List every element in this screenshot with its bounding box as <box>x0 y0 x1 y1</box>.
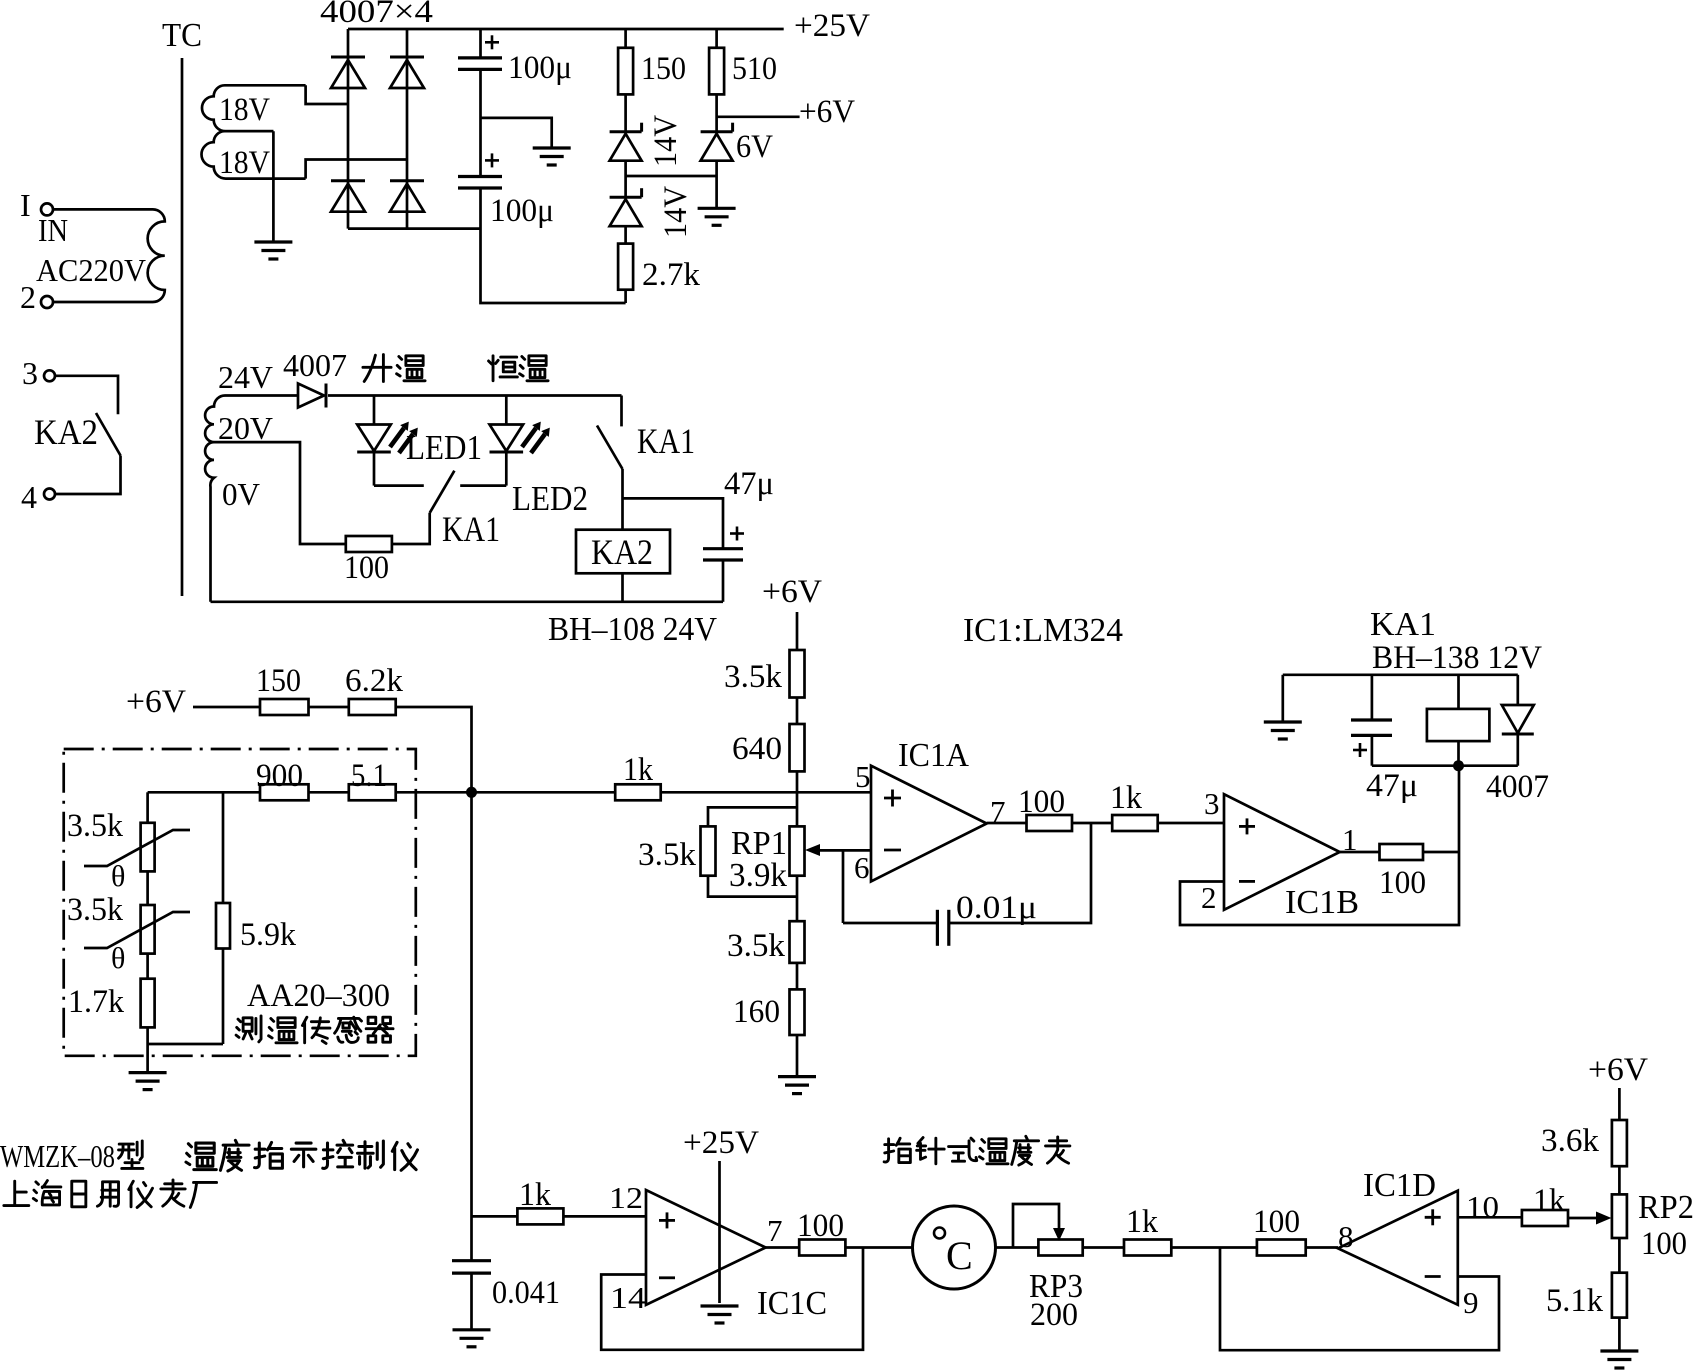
primary winding AC220V <box>54 209 165 302</box>
svg-text:12: 12 <box>609 1180 643 1215</box>
resistor 1k IC1D out <box>1124 1240 1171 1256</box>
zener diode 14V upper <box>610 130 642 133</box>
svg-text:3.5k: 3.5k <box>638 837 697 873</box>
IC1A minus sign <box>884 849 901 852</box>
wire 18V top to bridge <box>306 85 348 104</box>
svg-text:+6V: +6V <box>799 94 855 130</box>
svg-text:+6V: +6V <box>126 684 186 720</box>
svg-text:LED1: LED1 <box>406 428 482 467</box>
wire IC1B output <box>1340 851 1380 854</box>
wire RP1 to 3.5k lower <box>796 876 799 922</box>
svg-text:IC1D: IC1D <box>1363 1167 1436 1204</box>
svg-text:KA1: KA1 <box>1370 606 1436 643</box>
wire 3.5k to 160 <box>796 963 799 990</box>
svg-text:10: 10 <box>1466 1189 1499 1224</box>
terminal 3 <box>44 370 55 381</box>
svg-text:3: 3 <box>22 355 38 391</box>
svg-text:4007: 4007 <box>1486 769 1549 805</box>
svg-text:100: 100 <box>1641 1226 1687 1262</box>
wire pin14 feedback loop <box>601 1248 863 1350</box>
resistor 510 top lead <box>715 29 718 48</box>
thermistor chain top lead <box>146 792 149 823</box>
LED2 <box>490 425 524 452</box>
resistor 1.7k <box>141 979 155 1028</box>
label shang-hai-ri-yong-yi-biao-chang <box>4 1181 29 1205</box>
label sheng-wen <box>363 355 391 382</box>
wire 510 to 6V zener <box>715 94 718 131</box>
diode D4 lower-right <box>390 179 424 182</box>
resistor 160 <box>790 989 805 1035</box>
wire 1k to pin12 <box>563 1215 646 1218</box>
wire cap to output node <box>949 823 1091 923</box>
wire zener to 2.7k <box>624 226 627 243</box>
svg-text:C: C <box>946 1233 973 1278</box>
thermistor Rt2 3.5k <box>141 905 155 954</box>
bridge rectifier left column <box>347 29 350 229</box>
relay section bottom rail <box>1372 764 1518 767</box>
wire rail to ground <box>1281 675 1284 722</box>
svg-text:IC1B: IC1B <box>1285 884 1359 921</box>
47u KA1 plus sign <box>1353 749 1367 752</box>
ground divider <box>778 1075 816 1078</box>
wire diode to KA1 contact rail <box>328 394 622 397</box>
wire pin2 feedback loop <box>1180 766 1459 925</box>
svg-text:3.5k: 3.5k <box>724 659 783 695</box>
svg-text:100: 100 <box>797 1208 844 1244</box>
svg-text:AA20–300: AA20–300 <box>247 978 390 1014</box>
IC1D plus sign <box>1425 1216 1441 1219</box>
wire chain to 5.9k bottom <box>148 1043 223 1046</box>
svg-text:IC1A: IC1A <box>898 737 969 774</box>
capacitor 0.041 <box>452 1259 491 1262</box>
wire parallel bottom <box>708 876 797 897</box>
node zener junction wire <box>626 175 717 178</box>
resistor 5.9k <box>216 903 230 949</box>
IC1A plus sign <box>884 797 901 800</box>
resistor 3.5k divider lower <box>790 921 805 963</box>
svg-text:20V: 20V <box>218 410 273 446</box>
svg-text:6.2k: 6.2k <box>345 663 404 699</box>
LED2 lead top <box>505 396 508 425</box>
IC1B minus sign <box>1239 880 1255 883</box>
svg-text:3.5k: 3.5k <box>67 892 123 928</box>
svg-text:100: 100 <box>1018 784 1065 820</box>
wire +6V to 150 <box>193 706 260 709</box>
wire C1 to midpoint <box>479 69 482 176</box>
wire LED junction left segment <box>374 484 424 487</box>
wire 20V tap <box>214 442 346 544</box>
svg-text:14: 14 <box>610 1280 647 1315</box>
ground right divider <box>1600 1349 1638 1352</box>
wire RP2 to 5.1k <box>1618 1238 1621 1273</box>
resistor 150 sensor <box>260 699 309 715</box>
svg-text:9: 9 <box>1463 1285 1479 1320</box>
svg-text:TC: TC <box>162 17 202 54</box>
label wen-du-zhi-shi-kong-zhi-yi <box>186 1143 216 1170</box>
relay coil KA2 box <box>576 530 670 574</box>
capacitor C1 100u upper <box>458 56 502 59</box>
wire 100 to node <box>1423 851 1459 854</box>
wire rail to KA1 right contact <box>620 396 623 427</box>
svg-text:1k: 1k <box>1110 780 1142 816</box>
wire 1k to 100 node <box>1171 1246 1257 1249</box>
resistor 1k RP2 <box>1522 1210 1568 1226</box>
C1 plus sign <box>485 41 499 44</box>
wire terminal 3 <box>55 376 118 414</box>
terminal 2 <box>41 296 53 308</box>
LED1 <box>357 425 391 452</box>
resistor 640 <box>790 724 805 771</box>
svg-text:AC220V: AC220V <box>36 252 146 288</box>
svg-text:47μ: 47μ <box>724 466 774 502</box>
svg-text:+25V: +25V <box>683 1125 759 1161</box>
wire 3.6k to RP2 <box>1618 1166 1621 1194</box>
svg-text:WMZK–08: WMZK–08 <box>0 1138 115 1174</box>
resistor 100 IC1B out <box>1380 844 1424 860</box>
wire 5.1 to junction node <box>396 791 472 794</box>
relay contact KA2 blade <box>96 413 121 456</box>
resistor 3.6k <box>1612 1120 1627 1166</box>
resistor 100 relay <box>346 536 392 552</box>
label xing <box>119 1141 143 1169</box>
wire 100 to meter <box>845 1246 912 1249</box>
svg-text:IC1:LM324: IC1:LM324 <box>963 612 1123 649</box>
capacitor 0.01u <box>936 910 939 946</box>
secondary winding 18V upper <box>202 85 306 131</box>
wire terminal 4 <box>55 456 121 495</box>
wire 6V zener to ground <box>715 161 718 209</box>
wire parallel top <box>708 807 797 826</box>
resistor 510 <box>709 48 724 95</box>
svg-text:LED2: LED2 <box>512 479 588 518</box>
capacitor C2 100u lower <box>458 175 502 178</box>
47u plus sign <box>730 532 744 535</box>
svg-text:640: 640 <box>732 731 782 767</box>
node junction dot <box>466 787 477 798</box>
diode D1 upper-left <box>331 56 365 59</box>
resistor 100 IC1D out <box>1257 1240 1306 1256</box>
svg-text:3: 3 <box>1204 786 1220 821</box>
svg-text:510: 510 <box>732 51 777 87</box>
wire 0.041 to ground <box>470 1273 473 1330</box>
label zhi-zhen-shi-wen-du-biao <box>884 1138 910 1162</box>
potentiometer RP1 <box>790 826 805 875</box>
wire sensor row left <box>148 791 260 794</box>
wire 47u bottom <box>722 560 725 602</box>
wire LED junction right segment <box>460 484 506 487</box>
meter M temperature <box>913 1206 996 1289</box>
IC1B plus sign <box>1239 825 1255 828</box>
svg-text:IC1C: IC1C <box>757 1285 827 1322</box>
svg-text:100μ: 100μ <box>508 50 572 86</box>
ground 0.041 <box>453 1328 491 1331</box>
sensor box dash-dot <box>64 749 416 1056</box>
resistor 100 IC1C out <box>799 1240 845 1256</box>
svg-text:5.9k: 5.9k <box>240 917 296 953</box>
wire junction down to IC1C <box>470 792 473 1260</box>
svg-text:θ: θ <box>111 942 125 975</box>
svg-text:100: 100 <box>1253 1204 1300 1240</box>
wire rail to 4007 <box>1516 675 1519 705</box>
svg-text:150: 150 <box>641 51 686 87</box>
svg-text:2: 2 <box>1201 880 1217 915</box>
node KA1 dot <box>1453 760 1464 771</box>
svg-text:5.1: 5.1 <box>351 758 387 794</box>
wire 1k arrow to RP2 <box>1568 1217 1604 1220</box>
wire Rt2 to 1.7k <box>146 954 149 979</box>
zener diode 14V lower <box>610 196 642 199</box>
zener diode 6V <box>701 130 733 133</box>
svg-text:1k: 1k <box>623 752 653 788</box>
svg-text:IN: IN <box>38 212 68 248</box>
svg-text:3.6k: 3.6k <box>1541 1123 1600 1159</box>
ground filter midpoint <box>533 146 571 149</box>
wire zeners junction <box>624 161 627 198</box>
label heng-wen <box>489 356 518 381</box>
svg-text:3.9k: 3.9k <box>729 857 787 894</box>
wire pin6 to RP1 wiper <box>843 850 871 923</box>
svg-text:14V: 14V <box>658 186 694 238</box>
transformer TC core <box>181 58 184 596</box>
wire feedback IC1D loop <box>1220 1248 1499 1351</box>
svg-text:7: 7 <box>767 1213 783 1248</box>
diode 4007 relay supply <box>298 384 324 408</box>
ground 6V zener <box>698 207 736 210</box>
wire +6V divider top <box>796 612 799 650</box>
svg-text:1k: 1k <box>1126 1204 1158 1240</box>
svg-text:I: I <box>20 187 31 223</box>
svg-text:θ: θ <box>111 860 125 893</box>
svg-text:100: 100 <box>1379 865 1426 901</box>
svg-text:4007: 4007 <box>283 347 347 383</box>
wire +6V right divider <box>1618 1088 1621 1120</box>
wire 18V bottom to bridge <box>306 160 407 179</box>
wire IC1A output <box>987 822 1027 825</box>
resistor 150 top lead <box>624 29 627 48</box>
resistor 3.5k divider top <box>790 650 805 698</box>
wire 2.7k bottom <box>624 290 627 303</box>
svg-text:100μ: 100μ <box>490 193 554 229</box>
svg-text:200: 200 <box>1030 1297 1078 1333</box>
bridge bottom wire <box>348 227 481 230</box>
relay contact KA1 left blade <box>430 471 455 513</box>
svg-text:BH–108 24V: BH–108 24V <box>548 611 717 648</box>
wire 5.9k bottom <box>222 949 225 1045</box>
bridge rectifier right column <box>406 29 409 229</box>
svg-text:6: 6 <box>854 850 870 885</box>
svg-text:BH–138 12V: BH–138 12V <box>1372 640 1542 676</box>
LED1 lead top <box>373 396 376 425</box>
ground center tap <box>254 240 292 243</box>
wire 1k to pin3 <box>1158 822 1224 825</box>
secondary winding 24V/20V/0V <box>205 396 298 602</box>
wire 3.5k to 640 <box>796 698 799 725</box>
ground relay rail <box>1264 720 1302 723</box>
wire C2 bottom to minus rail <box>481 188 626 303</box>
wire 1k to pin5 <box>661 791 871 794</box>
wire 900 to 5.1 <box>309 791 349 794</box>
wire 100 to IC1D pin8 <box>1306 1246 1338 1249</box>
wire meter to RP3 <box>996 1246 1039 1249</box>
resistor 2.7k <box>618 244 633 290</box>
svg-text:2: 2 <box>20 279 36 315</box>
svg-text:160: 160 <box>733 994 780 1030</box>
svg-text:4: 4 <box>21 479 37 515</box>
svg-text:900: 900 <box>256 758 303 794</box>
wire 6.2k to junction <box>396 707 472 792</box>
svg-text:KA1: KA1 <box>442 509 500 549</box>
svg-text:1k: 1k <box>519 1177 551 1213</box>
svg-text:8: 8 <box>1338 1219 1354 1254</box>
LED1 lead bottom <box>373 453 376 486</box>
svg-text:+6V: +6V <box>1588 1052 1648 1088</box>
ground IC1C power <box>701 1304 739 1307</box>
svg-text:+6V: +6V <box>762 574 822 610</box>
wire 4007 to bottom rail <box>1516 735 1519 765</box>
svg-text:1k: 1k <box>1533 1183 1565 1219</box>
thermistor Rt1 arrow <box>84 830 190 866</box>
thermistor Rt2 arrow <box>84 912 190 948</box>
wire 150 to zener <box>624 94 627 131</box>
wire IC1C output <box>766 1246 800 1249</box>
svg-text:4007×4: 4007×4 <box>320 0 433 30</box>
op-amp IC1A <box>871 766 987 882</box>
relay section top rail <box>1283 673 1518 676</box>
resistor 5.1 <box>349 784 396 800</box>
wire rail to C1 <box>479 29 482 58</box>
diode 4007 KA1 <box>1502 705 1534 733</box>
svg-text:14V: 14V <box>648 115 684 167</box>
+25V rail <box>348 28 784 31</box>
meter degree circle <box>934 1228 945 1239</box>
wire center tap <box>272 131 275 242</box>
wire feedback to cap <box>843 922 937 925</box>
resistor 6.2k <box>349 699 396 715</box>
diode D3 lower-left <box>331 179 365 182</box>
wire chain bottom <box>146 1027 149 1072</box>
wire pin10 to 1k <box>1458 1216 1522 1219</box>
svg-text:47μ: 47μ <box>1366 768 1418 804</box>
wire junction to 1k IC1A <box>472 791 616 794</box>
resistor 3.5k parallel <box>701 826 716 875</box>
wire Rt1 to Rt2 <box>146 871 149 905</box>
ground sensor <box>129 1071 167 1074</box>
wire 100 to 1k <box>1072 822 1112 825</box>
svg-text:24V: 24V <box>218 359 273 395</box>
resistor 100 IC1A out <box>1027 815 1073 831</box>
svg-text:150: 150 <box>256 663 301 699</box>
svg-text:18V: 18V <box>219 145 270 181</box>
svg-text:0.041: 0.041 <box>492 1275 560 1311</box>
LED2 arrows <box>522 428 536 447</box>
wire 640 to RP1 chain <box>796 771 799 826</box>
svg-text:0.01μ: 0.01μ <box>956 890 1037 926</box>
wire rail to 47u <box>1371 675 1374 720</box>
wire tee to 1k IC1C <box>472 1215 518 1218</box>
wire coil to node <box>1457 741 1460 766</box>
terminal I <box>41 203 53 215</box>
LED2 lead bottom <box>505 453 508 486</box>
svg-text:5: 5 <box>855 759 871 794</box>
secondary winding 18V lower <box>201 131 305 178</box>
svg-text:2.7k: 2.7k <box>642 257 701 293</box>
op-amp IC1C <box>646 1190 766 1305</box>
wire 0V bottom rail <box>211 600 724 603</box>
resistor 1k IC1A input <box>615 784 661 800</box>
svg-text:+25V: +25V <box>794 8 870 44</box>
wire rail to coil <box>1457 675 1460 709</box>
svg-text:6V: 6V <box>736 129 773 165</box>
resistor 900 <box>260 784 309 800</box>
RP1 wiper arrow <box>812 849 843 852</box>
capacitor 47u KA2 <box>703 547 743 550</box>
wire midpoint to ground <box>481 118 552 148</box>
wire 150 to 6.2k <box>309 706 349 709</box>
diode D2 upper-right <box>390 56 424 59</box>
potentiometer RP3 <box>1038 1240 1082 1256</box>
thermistor Rt1 3.5k <box>141 823 155 872</box>
svg-text:KA2: KA2 <box>591 532 653 572</box>
IC1C plus sign <box>659 1219 675 1222</box>
svg-text:KA2: KA2 <box>34 412 98 452</box>
resistor 1k IC1C input <box>517 1208 563 1224</box>
terminal 4 <box>44 489 55 500</box>
svg-text:0V: 0V <box>222 476 260 512</box>
op-amp IC1D mirrored <box>1338 1191 1458 1305</box>
wire 160 to ground <box>796 1035 799 1077</box>
wire +25V power <box>718 1161 721 1303</box>
relay coil KA1 box <box>1427 709 1490 741</box>
wire 47u to bottom rail <box>1371 735 1374 765</box>
capacitor 47u KA1 <box>1351 718 1392 721</box>
wire 100 to KA1 blade <box>392 513 430 544</box>
svg-text:100: 100 <box>344 550 389 586</box>
svg-text:RP2: RP2 <box>1638 1189 1693 1226</box>
IC1C minus sign <box>659 1276 675 1279</box>
op-amp IC1B <box>1224 794 1340 910</box>
relay contact KA1 right blade <box>597 426 623 470</box>
C2 plus sign <box>485 159 499 162</box>
label ce-wen-chuan-gan-qi <box>236 1016 261 1042</box>
IC1D minus sign <box>1425 1275 1441 1278</box>
svg-text:KA1: KA1 <box>637 421 695 461</box>
resistor 5.1k <box>1612 1273 1627 1318</box>
svg-text:5.1k: 5.1k <box>1546 1283 1603 1319</box>
svg-text:3.5k: 3.5k <box>67 808 123 844</box>
potentiometer RP2 <box>1612 1194 1627 1238</box>
+6V stub wire <box>717 115 800 118</box>
svg-text:3.5k: 3.5k <box>727 928 786 964</box>
resistor 150 <box>618 48 633 95</box>
RP3 wiper loop <box>1013 1204 1059 1248</box>
wire 5.1k to ground <box>1618 1318 1621 1351</box>
svg-text:18V: 18V <box>219 92 270 128</box>
wire RP3 to 1k <box>1083 1246 1124 1249</box>
wire KA2 coil bottom <box>621 573 624 602</box>
resistor 5.9k lead top <box>222 792 225 903</box>
wire node to 47u cap <box>623 498 724 548</box>
wire KA1 blade to KA2 coil <box>621 469 624 530</box>
LED1 arrows <box>390 428 404 447</box>
resistor 1k IC1B input <box>1112 815 1158 831</box>
svg-text:1.7k: 1.7k <box>68 984 124 1020</box>
